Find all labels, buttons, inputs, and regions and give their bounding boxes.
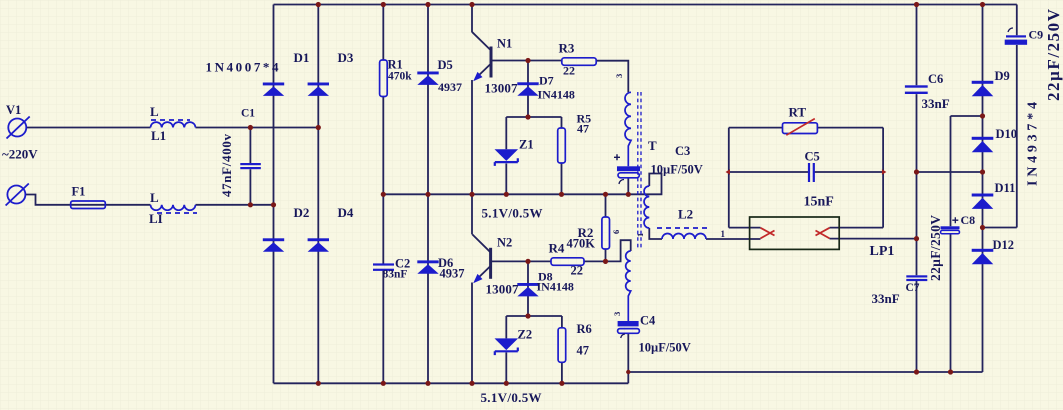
svg-text:4937: 4937 [438, 80, 462, 94]
svg-text:3: 3 [612, 312, 622, 316]
svg-text:L2: L2 [678, 207, 693, 222]
wire N2 emitter to bottom rail [472, 267, 490, 384]
capacitor C9 [1005, 28, 1027, 45]
wire C4 stem to bottom rail [627, 333, 629, 383]
wire D5/D6 column [427, 5, 429, 384]
svg-text:R1: R1 [388, 58, 403, 72]
capacitor C6 [905, 85, 928, 94]
capacitor C8 [941, 217, 960, 234]
svg-text:D9: D9 [995, 69, 1010, 83]
svg-text:C3: C3 [675, 144, 690, 158]
svg-text:Z1: Z1 [519, 138, 534, 152]
wire Z1/R5 loop top [506, 116, 561, 118]
svg-text:15nF: 15nF [804, 195, 834, 210]
svg-text:470k: 470k [388, 71, 412, 83]
wire C1 stems [249, 128, 251, 205]
wire R6 branch [561, 316, 563, 383]
svg-text:RT: RT [789, 105, 807, 120]
inductor L1 top [151, 120, 196, 128]
svg-text:C6: C6 [928, 72, 943, 86]
diode D1 [263, 83, 284, 96]
wire mid rail (half-bridge node) [383, 174, 661, 195]
svg-text:10µF/50V: 10µF/50V [651, 163, 703, 177]
diode D3 [308, 83, 329, 96]
svg-text:~220V: ~220V [2, 147, 38, 162]
svg-text:LP1: LP1 [870, 244, 895, 259]
svg-text:3: 3 [614, 74, 624, 78]
svg-text:4937: 4937 [440, 267, 465, 281]
svg-text:5.1V/0.5W: 5.1V/0.5W [482, 206, 543, 221]
svg-text:13007: 13007 [485, 81, 519, 96]
wire lamp top left pin [729, 227, 761, 229]
wire bottom rail [274, 382, 629, 384]
svg-text:D5: D5 [438, 58, 453, 72]
svg-text:L: L [150, 190, 159, 205]
svg-text:22: 22 [571, 264, 584, 278]
diode D2 [263, 238, 284, 251]
svg-text:R6: R6 [577, 322, 592, 336]
svg-text:83nF: 83nF [383, 269, 408, 281]
transformer T middle winding [644, 186, 649, 228]
wire N2 collector diagonal [472, 234, 490, 251]
resistor R2 [602, 217, 610, 249]
fuse F1 [71, 201, 106, 209]
capacitor C5 [808, 163, 815, 182]
transistor N1 [473, 47, 491, 82]
svg-text:1: 1 [635, 233, 645, 237]
diode D11 [972, 194, 994, 209]
wire lamp bottom right pin to C7 [830, 238, 917, 240]
svg-text:V1: V1 [6, 103, 21, 117]
svg-text:C5: C5 [805, 150, 820, 164]
wire N1 emitter to mid rail [472, 65, 490, 235]
capacitor C4 [618, 321, 640, 338]
wire lamp top right pin [830, 227, 884, 229]
svg-text:22: 22 [563, 64, 575, 78]
svg-text:D2: D2 [294, 205, 310, 220]
diode D6 [417, 260, 438, 273]
svg-text:47: 47 [577, 344, 590, 358]
diode D4 [308, 238, 329, 251]
svg-text:R4: R4 [549, 241, 565, 256]
capacitor C7 [906, 275, 927, 281]
transformer T top winding [625, 92, 631, 166]
diode D5 [417, 72, 438, 85]
svg-text:Z2: Z2 [518, 328, 533, 342]
svg-text:22µF/250V: 22µF/250V [1044, 8, 1063, 101]
wire R4 to transformer pin 4 [584, 240, 631, 261]
svg-text:470K: 470K [567, 237, 596, 251]
resistor R3 [562, 58, 596, 66]
wire bridge left column (D1/D2) [273, 5, 275, 384]
wire D8 column [527, 261, 529, 316]
thermistor RT [783, 119, 818, 136]
wire C8 column [951, 116, 983, 372]
inductor L1 bottom [151, 205, 198, 213]
svg-text:22µF/250V: 22µF/250V [928, 215, 943, 281]
svg-text:6: 6 [611, 230, 621, 234]
wire Z2 branch [505, 316, 507, 383]
svg-text:C9: C9 [1029, 28, 1044, 42]
wire N1 base row [491, 60, 562, 62]
lamp filament right [816, 228, 830, 239]
svg-text:10µF/50V: 10µF/50V [639, 341, 691, 355]
svg-text:L1: L1 [151, 128, 166, 143]
wire T middle winding to L2 [649, 228, 760, 239]
wire C3 lower stem [627, 178, 629, 195]
wire N1 collector [472, 5, 490, 50]
capacitor C3 [614, 154, 640, 184]
diode D10 [972, 137, 994, 152]
svg-text:N2: N2 [497, 236, 512, 250]
wire C6 to D10/D11 junction [917, 171, 983, 173]
svg-text:D11: D11 [995, 181, 1016, 195]
svg-text:L: L [150, 104, 159, 119]
svg-text:C8: C8 [961, 213, 976, 227]
zener Z1 [495, 149, 519, 166]
wire bridge right column (D3/D4) [317, 5, 319, 384]
source terminal lower [6, 184, 29, 206]
wire C6/C7 column [916, 5, 918, 373]
wire N2 base row [491, 260, 551, 262]
inductor L2 [657, 228, 708, 239]
capacitor C2 [373, 263, 394, 271]
transformer T core [638, 92, 641, 250]
wire D11/D12 junction to C9 column [983, 227, 1017, 229]
wire RT loop right vertical [882, 128, 884, 228]
svg-text:D3: D3 [338, 50, 354, 65]
capacitor C1 [240, 163, 260, 169]
svg-text:D4: D4 [338, 205, 354, 220]
svg-text:33nF: 33nF [922, 96, 950, 111]
wire lower right rail [628, 371, 982, 373]
svg-text:IN4148: IN4148 [537, 280, 574, 294]
wire Z1 branch [505, 117, 507, 194]
wire top rail [274, 4, 1017, 6]
svg-text:T: T [648, 138, 657, 153]
wire C5 row [729, 171, 883, 173]
resistor R5 [558, 128, 566, 163]
svg-text:C4: C4 [640, 314, 656, 328]
svg-text:47: 47 [577, 122, 589, 136]
svg-text:LI: LI [149, 211, 163, 226]
resistor R4 [551, 258, 584, 266]
wire R5 branch [561, 117, 563, 194]
wire Z2/R6 loop top [506, 315, 562, 317]
svg-text:1: 1 [721, 229, 726, 239]
diode D12 [972, 249, 994, 264]
svg-text:R3: R3 [559, 41, 575, 56]
wire R3 to transformer pin 3 [596, 61, 628, 93]
svg-text:F1: F1 [72, 184, 86, 198]
wire R1/C2 column [382, 5, 384, 384]
svg-text:D10: D10 [996, 127, 1018, 141]
wire RT loop top [729, 127, 883, 129]
source V1 [7, 117, 30, 139]
diode D7 [517, 82, 538, 95]
wire AC line top (V1 to bridge) [27, 127, 319, 129]
svg-text:C1: C1 [241, 108, 255, 120]
wire D7 column [527, 61, 529, 118]
svg-text:C7: C7 [906, 282, 920, 294]
svg-text:47nF/400v: 47nF/400v [219, 134, 234, 198]
wire R2 stems [605, 194, 607, 261]
svg-text:D7: D7 [539, 74, 554, 88]
diode D8 [517, 283, 538, 296]
svg-text:13007: 13007 [486, 282, 520, 297]
resistor R6 [558, 328, 566, 363]
transistor N2 [473, 248, 490, 283]
wire D9-D12 column [982, 5, 984, 373]
resistor R1 [380, 60, 388, 97]
svg-text:D12: D12 [993, 238, 1015, 252]
wire AC line bottom (fuse to bridge) [26, 195, 274, 205]
wire C9 column [1016, 5, 1018, 228]
svg-text:33nF: 33nF [872, 291, 900, 306]
svg-text:IN4148: IN4148 [538, 88, 575, 102]
svg-text:D1: D1 [294, 50, 310, 65]
lamp LP1 [750, 217, 840, 249]
zener Z2 [495, 338, 519, 355]
svg-text:5.1V/0.5W: 5.1V/0.5W [481, 390, 542, 405]
transformer T bottom winding [626, 251, 631, 321]
wire RT loop left vertical [728, 128, 730, 228]
node markers C5 row [726, 169, 887, 174]
svg-text:N1: N1 [497, 37, 512, 51]
diode D9 [972, 81, 994, 96]
lamp filament left [761, 228, 775, 239]
